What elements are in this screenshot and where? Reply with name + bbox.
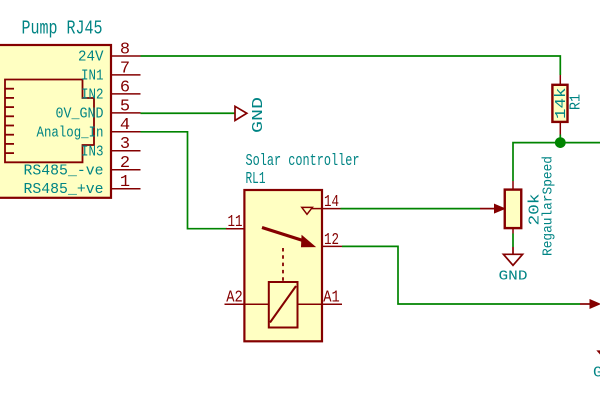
pin 8 (24V) [78,40,141,65]
connector body Pump RJ45 [0,45,111,198]
svg-text:6: 6 [120,78,130,97]
svg-text:IN3: IN3 [81,143,104,160]
svg-text:24V: 24V [78,49,104,66]
potentiometer RV (20k RegaularSpeed) [505,156,557,256]
svg-text:11: 11 [228,213,243,232]
junction [555,137,566,148]
RJ45 jack teeth [5,89,14,153]
wire 24V pin8 to R1 top [141,56,561,75]
svg-text:IN2: IN2 [81,86,104,103]
relay pin 11 [226,213,244,232]
relay contact 14 (open arrow) [302,207,322,214]
pin 3 (IN3) [81,135,141,160]
pin 5 (0V_GND) [56,97,141,122]
relay coil box [269,282,298,328]
pin 6 (IN2) [81,78,141,103]
svg-text:3: 3 [120,135,130,154]
svg-text:RS485_-ve: RS485_-ve [24,162,104,179]
svg-text:RL1: RL1 [246,170,266,189]
svg-text:GND: GND [499,269,528,285]
relay coil connections [244,303,268,305]
relay RL1 body [244,190,322,341]
svg-text:0V_GND: 0V_GND [56,105,104,122]
relay switch arm (common to 12) [262,228,315,247]
relay pin 14 [322,193,341,212]
svg-text:7: 7 [120,59,130,78]
pin 4 (Analog_In) [37,116,141,141]
svg-text:2: 2 [120,154,130,173]
svg-text:1: 1 [120,173,130,192]
svg-text:8: 8 [120,40,130,59]
wire relay pin 12 to right arrow [342,246,580,304]
resistor R1 [552,75,584,135]
pin 7 (IN1) [81,59,141,84]
relay pin A2 [225,289,245,308]
pin 1 (RS485_+ve) [24,173,141,198]
svg-text:RegaularSpeed: RegaularSpeed [542,156,557,256]
svg-text:14: 14 [324,193,339,212]
svg-text:A1: A1 [323,289,340,308]
relay pin A1 [322,289,342,308]
svg-text:A2: A2 [226,289,243,308]
RJ45 jack graphic [5,80,94,163]
ground symbol GND (below pot) [499,247,528,285]
svg-text:12: 12 [324,231,339,250]
ground symbol GND (right-pointing) [235,97,267,133]
wire pin5 to GND [141,112,236,114]
pin 2 (RS485_-ve) [24,154,141,179]
relay coil dashed link [282,248,284,281]
pot wiper arrow [480,204,505,213]
relay coil diagonal [270,286,296,323]
svg-text:Pump RJ45: Pump RJ45 [22,18,103,40]
svg-text:RS485_+ve: RS485_+ve [24,181,104,198]
wiper arrow of off-screen pot (right edge) [580,300,600,309]
svg-text:5: 5 [120,97,130,116]
svg-text:GND: GND [593,365,600,381]
wire R1 bottom to junction [559,135,561,143]
wire pin4 Analog_In to relay pin 11 [141,132,228,229]
svg-text:Analog_In: Analog_In [37,124,104,141]
wire pot bottom to GND [512,234,514,248]
svg-text:GND: GND [250,97,267,133]
svg-text:R1: R1 [568,94,585,110]
ground symbol of off-screen pot (clipped, bottom right) [593,351,600,381]
svg-text:IN1: IN1 [81,67,104,84]
relay pin 12 [322,231,342,250]
svg-text:4: 4 [120,116,130,135]
wire junction row [513,143,600,181]
svg-text:Solar controller: Solar controller [246,152,360,171]
wire relay pin 14 to pot wiper [341,208,481,210]
